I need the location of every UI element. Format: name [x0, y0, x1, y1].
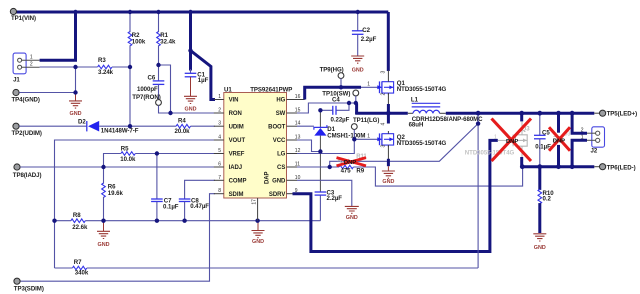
svg-text:3: 3 [381, 71, 387, 74]
svg-text:8: 8 [218, 188, 221, 194]
svg-text:16: 16 [295, 94, 301, 100]
wire LED- bus [522, 165, 595, 168]
wire VCC column to C3 [319, 152, 321, 192]
svg-text:NTD3055-150T4G: NTD3055-150T4G [397, 140, 447, 147]
svg-text:VCC: VCC [273, 138, 286, 144]
test point TP8(IADJ) [13, 164, 42, 179]
test point TP7(RON) [132, 94, 161, 105]
capacitor C4 [320, 96, 349, 123]
test point TP10(SW) [322, 90, 358, 103]
test point TP9(HG) [320, 67, 344, 86]
svg-text:DNP: DNP [506, 139, 518, 145]
capacitor C3 [315, 189, 343, 220]
svg-text:VREF: VREF [229, 152, 245, 158]
svg-text:2.2µF: 2.2µF [361, 36, 377, 43]
U1 left pin stubs [214, 100, 224, 194]
svg-text:TP4(GND): TP4(GND) [12, 97, 40, 104]
op-amp U1 TPS92641PWP body [224, 87, 293, 198]
svg-text:GND: GND [534, 245, 546, 251]
wire GND pin10 to ground [297, 180, 352, 206]
svg-text:TP3(SDIM): TP3(SDIM) [14, 285, 44, 292]
test point TP3(SDIM) [14, 278, 44, 292]
svg-text:R4: R4 [178, 118, 186, 125]
svg-text:2: 2 [30, 62, 33, 68]
transistor Q1 [367, 70, 446, 96]
wire VIN diagonal to U1 pin1 [191, 51, 216, 100]
diode D3 DNP ghost column [554, 113, 571, 167]
wire LG pin12 to Q2 gate [297, 139, 379, 153]
svg-text:68uH: 68uH [409, 122, 424, 129]
svg-text:CMSH1-100M: CMSH1-100M [327, 132, 365, 139]
svg-text:HG: HG [276, 98, 285, 104]
wire VIN trunk to C1 [189, 12, 192, 71]
resistor R4 [175, 118, 191, 136]
svg-text:U1: U1 [224, 87, 232, 94]
ground symbol under R10 [533, 234, 546, 251]
ground symbol under TP4 row [69, 93, 82, 117]
svg-text:RON: RON [229, 111, 242, 117]
svg-text:R8: R8 [73, 212, 81, 219]
svg-text:CS: CS [277, 165, 285, 171]
svg-text:NTD3055-150T4G: NTD3055-150T4G [465, 149, 515, 156]
wire SDIM pin8 column to TP3 row [20, 194, 215, 282]
wire TP4 row [19, 92, 75, 94]
resistor R3 [98, 57, 114, 76]
svg-text:DNP: DNP [344, 160, 356, 166]
capacitor C2 [352, 12, 377, 56]
U1 pin numbers left [218, 94, 221, 194]
svg-text:TP8(IADJ): TP8(IADJ) [13, 172, 42, 179]
wire VOUT row pin4 [55, 140, 216, 268]
wire Q3 source stub to LED- bus [520, 157, 523, 167]
svg-text:0.1µF: 0.1µF [163, 203, 179, 210]
U1 pin 17 DAP stub [252, 198, 258, 221]
svg-text:22.6k: 22.6k [72, 224, 88, 231]
svg-text:COMP: COMP [229, 178, 247, 184]
svg-text:3.24k: 3.24k [98, 69, 114, 76]
connector J2 [581, 127, 605, 155]
wire Q1 source to SW to Q2 drain [387, 93, 389, 124]
svg-text:475: 475 [341, 168, 352, 175]
ground symbol under DAP column [252, 221, 265, 245]
wire J2 pin2 to LED+ bus [572, 113, 587, 133]
transistor Q3 DNP ghost [498, 121, 527, 157]
wire VIN bus drop to Q1 drain [387, 12, 390, 71]
svg-text:4: 4 [381, 123, 387, 126]
wire HG thick run [305, 87, 361, 99]
U1 pin numbers right [295, 94, 301, 194]
ground symbol under U1 GND pin [345, 206, 359, 221]
wire TP10 node down to SW bus [355, 104, 358, 115]
wire HG to Q1 gate [361, 86, 379, 88]
svg-text:0.2: 0.2 [543, 195, 552, 202]
svg-text:TP11(LG): TP11(LG) [353, 117, 379, 124]
resistor R2 [128, 12, 146, 67]
wire IADJ row pin6 [20, 166, 215, 168]
capacitor C6 [137, 65, 164, 99]
resistor R11 DNP ghost [338, 154, 368, 163]
wire VREF row pin5 [104, 154, 216, 168]
svg-text:TPS92641PWP: TPS92641PWP [250, 87, 292, 94]
wire VIN top bus [17, 11, 389, 14]
transistor Q2 [367, 123, 446, 148]
test point TP11(LG) [351, 117, 379, 139]
U1 right pin stubs [287, 100, 305, 194]
svg-text:4: 4 [218, 135, 221, 141]
wire LED+ bus [446, 112, 595, 115]
svg-text:TP5(LED+): TP5(LED+) [607, 110, 638, 117]
wire D2 anode to R4 [99, 125, 176, 127]
svg-text:GND: GND [346, 215, 358, 221]
svg-text:1: 1 [218, 94, 221, 100]
wire TP2 to D2 [19, 125, 87, 127]
DNP cross over Q3 [492, 119, 532, 162]
svg-text:GND: GND [98, 242, 110, 248]
svg-text:IADJ: IADJ [229, 165, 242, 171]
svg-text:VIN: VIN [229, 98, 239, 104]
svg-text:C2: C2 [362, 27, 370, 34]
svg-text:C4: C4 [332, 96, 340, 103]
wire analog ground row [55, 220, 321, 222]
svg-text:C5: C5 [542, 129, 550, 136]
svg-text:TP2(UDIM): TP2(UDIM) [12, 130, 42, 137]
svg-text:SW: SW [276, 111, 286, 117]
DNP label R11 [344, 160, 356, 166]
svg-text:R7: R7 [74, 259, 82, 266]
svg-text:SDIM: SDIM [229, 192, 244, 198]
svg-text:J2: J2 [591, 148, 598, 155]
svg-text:7: 7 [218, 175, 221, 181]
svg-text:1: 1 [367, 82, 370, 88]
svg-text:5: 5 [218, 148, 221, 154]
wire VCC pin13 elbow [297, 140, 320, 152]
wire Q3 drain stub [520, 113, 523, 121]
wire J1 pin2 row to R2 column [40, 66, 130, 68]
ground symbol on analog ground row [97, 221, 110, 248]
resistor R7 [72, 259, 88, 276]
svg-text:20.0k: 20.0k [175, 128, 191, 135]
wire J1 pin1 to VIN bus [40, 11, 76, 60]
capacitor C7 [151, 154, 179, 221]
svg-text:19.6k: 19.6k [108, 190, 124, 197]
wire CS pin11 row [297, 167, 523, 186]
wire CS feedback vertical [477, 113, 479, 268]
connector J1 [13, 53, 39, 83]
svg-text:GND: GND [382, 179, 394, 185]
svg-text:100k: 100k [132, 38, 146, 45]
svg-text:TP6(LED-): TP6(LED-) [607, 164, 636, 171]
resistor R9 475 [339, 165, 365, 175]
svg-text:1: 1 [494, 135, 497, 141]
Q3 ghost labels [465, 126, 530, 157]
DNP cross over D3 [549, 127, 570, 151]
svg-text:1: 1 [30, 54, 33, 60]
resistor R8 [71, 212, 88, 231]
svg-text:UDIM: UDIM [229, 125, 244, 131]
test point TP1(VIN) [10, 8, 36, 21]
wire SW bus left [355, 112, 408, 115]
test point TP5(LED+) [594, 110, 637, 117]
svg-text:1: 1 [367, 134, 370, 140]
diode D1 CMSH1-100M [314, 110, 366, 151]
svg-text:L1: L1 [411, 96, 419, 103]
svg-text:6: 6 [218, 162, 221, 168]
svg-text:NTD3055-150T4G: NTD3055-150T4G [397, 86, 447, 93]
svg-text:VOUT: VOUT [229, 138, 246, 144]
wire SDRV thick bus [293, 140, 498, 251]
wire BOOT pin14 to D1 cathode [297, 125, 314, 127]
junction dots left area [52, 10, 260, 223]
wire SW pin15 to SW node [297, 103, 356, 113]
svg-text:17: 17 [252, 199, 258, 205]
wire J2 pin1 to LED- bus [572, 140, 587, 166]
svg-text:2: 2 [381, 93, 387, 96]
svg-text:GND: GND [70, 111, 82, 117]
diode D2 1N4148W-7-F [78, 118, 139, 134]
svg-text:SDRV: SDRV [269, 192, 285, 198]
resistor R1 [157, 12, 176, 65]
svg-text:0.22µF: 0.22µF [331, 116, 350, 123]
capacitor C5 [534, 113, 551, 167]
ground symbol under C2 [351, 56, 364, 73]
svg-text:D2: D2 [78, 118, 86, 125]
svg-text:R5: R5 [121, 146, 129, 153]
wire R4 to U1 pin3 [191, 125, 216, 127]
svg-text:J1: J1 [13, 76, 20, 83]
svg-text:C6: C6 [148, 74, 156, 81]
resistor R10 [538, 167, 554, 233]
wire R2 column to UDIM row [129, 67, 131, 126]
svg-text:1µF: 1µF [198, 77, 209, 84]
DNP label Q3 [506, 139, 518, 145]
svg-text:R3: R3 [98, 57, 106, 64]
resistor R6 [102, 167, 124, 221]
svg-text:DNP: DNP [553, 139, 565, 145]
ground symbol under C1 [184, 77, 197, 112]
wire GND column from J1 row [75, 67, 77, 93]
ground symbol under Q2 [382, 166, 395, 185]
svg-text:GND: GND [252, 239, 264, 245]
test point TP6(LED-) [594, 164, 635, 172]
svg-text:2: 2 [218, 108, 221, 114]
svg-text:0.47µF: 0.47µF [190, 203, 209, 210]
svg-text:TP1(VIN): TP1(VIN) [11, 15, 36, 22]
resistor R5 [120, 146, 136, 163]
wire TP7 to RON row [159, 105, 216, 113]
test point TP2(UDIM) [12, 123, 42, 137]
svg-text:LG: LG [277, 152, 286, 158]
wire R1/C6 jog to RON row [159, 65, 171, 113]
DNP label D3 [553, 139, 565, 145]
wire DNP resistor branch [330, 124, 478, 167]
capacitor C1 [185, 69, 209, 84]
svg-text:10.0k: 10.0k [120, 156, 136, 163]
svg-text:R9: R9 [356, 168, 364, 175]
svg-text:GND: GND [352, 67, 364, 73]
svg-text:DAP: DAP [265, 171, 271, 184]
svg-text:BOOT: BOOT [268, 125, 286, 131]
svg-text:2.2µF: 2.2µF [327, 195, 343, 202]
svg-text:1N4148W-7-F: 1N4148W-7-F [101, 127, 139, 134]
inductor L1 [408, 96, 483, 128]
wire feedback row R7 to CS divider [55, 267, 479, 269]
junction dots middle and right [318, 10, 574, 169]
svg-text:340k: 340k [75, 270, 89, 277]
DNP cross over R11 [337, 158, 367, 166]
wire COMP pin7 to C8 [185, 180, 215, 198]
wire Q2 source to ground node [387, 145, 389, 166]
svg-text:3: 3 [381, 145, 387, 148]
svg-text:GND: GND [272, 178, 286, 184]
svg-text:GND: GND [185, 106, 197, 112]
test point TP4(GND) [12, 89, 40, 103]
capacitor C8 [179, 198, 210, 221]
svg-text:3: 3 [218, 121, 221, 127]
svg-text:32.4k: 32.4k [160, 38, 176, 45]
svg-text:1000pF: 1000pF [137, 86, 158, 93]
